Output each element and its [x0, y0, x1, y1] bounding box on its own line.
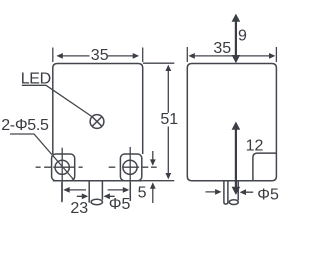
- svg-text:35: 35: [91, 47, 109, 64]
- svg-text:23: 23: [70, 200, 88, 217]
- svg-text:12: 12: [246, 138, 264, 155]
- svg-text:35: 35: [213, 40, 231, 57]
- svg-text:2-Φ5.5: 2-Φ5.5: [1, 117, 49, 134]
- svg-text:51: 51: [160, 111, 178, 128]
- svg-text:Φ5: Φ5: [109, 196, 131, 213]
- svg-text:9: 9: [238, 27, 247, 44]
- svg-text:LED: LED: [21, 71, 51, 88]
- svg-text:5: 5: [138, 185, 147, 202]
- svg-text:Φ5: Φ5: [257, 186, 279, 203]
